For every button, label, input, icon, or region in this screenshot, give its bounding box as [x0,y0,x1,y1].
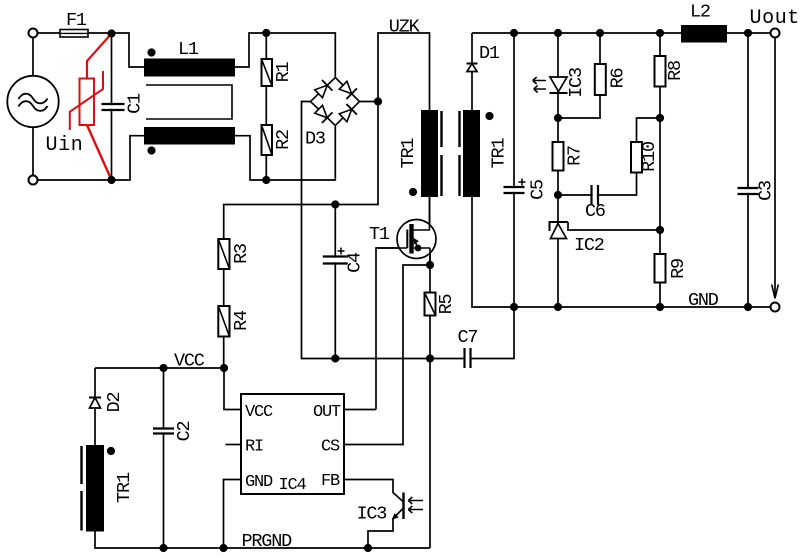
svg-text:D3: D3 [305,129,325,150]
svg-text:IC2: IC2 [574,235,604,256]
svg-text:C5: C5 [528,180,549,200]
svg-text:FB: FB [321,472,340,491]
svg-text:C7: C7 [458,327,478,348]
svg-text:TR1: TR1 [398,138,419,169]
svg-text:R4: R4 [231,310,252,331]
svg-text:R7: R7 [565,146,586,166]
svg-text:C4: C4 [345,252,366,273]
svg-text:L2: L2 [690,2,710,23]
svg-text:T1: T1 [369,224,390,245]
svg-text:R8: R8 [665,61,686,81]
svg-text:VCC: VCC [174,351,205,372]
svg-text:GND: GND [688,290,719,311]
svg-text:UZK: UZK [389,17,421,38]
svg-text:R3: R3 [231,244,252,264]
svg-text:Uout: Uout [750,7,800,30]
svg-text:IC4: IC4 [279,476,307,495]
svg-text:R10: R10 [639,142,660,172]
svg-text:C2: C2 [174,422,195,442]
svg-text:L1: L1 [178,39,199,60]
svg-text:PRGND: PRGND [242,531,293,552]
svg-text:R6: R6 [608,69,629,89]
svg-text:TR1: TR1 [489,138,510,169]
svg-text:C1: C1 [125,93,146,114]
svg-text:R1: R1 [273,62,294,83]
svg-text:GND: GND [245,473,273,492]
svg-text:C6: C6 [585,201,605,222]
svg-text:CS: CS [321,438,340,457]
svg-text:Uin: Uin [46,134,84,157]
svg-text:C3: C3 [756,181,777,201]
svg-text:R9: R9 [668,259,689,279]
svg-text:IC3: IC3 [566,68,587,98]
svg-text:F1: F1 [66,10,87,31]
svg-text:OUT: OUT [313,403,341,422]
svg-text:R2: R2 [273,130,294,150]
svg-text:D2: D2 [104,393,125,413]
svg-text:IC3: IC3 [357,504,387,525]
svg-text:VCC: VCC [245,403,273,422]
svg-text:RI: RI [245,438,263,457]
svg-text:R5: R5 [436,295,457,315]
svg-text:D1: D1 [479,43,500,64]
svg-text:TR1: TR1 [114,472,135,503]
